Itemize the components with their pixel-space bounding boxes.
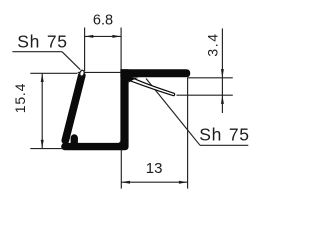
svg-text:15.4: 15.4	[12, 83, 28, 113]
svg-text:3.4: 3.4	[205, 32, 221, 56]
svg-text:Sh 75: Sh 75	[199, 124, 249, 144]
svg-text:13: 13	[146, 160, 163, 177]
svg-text:Sh 75: Sh 75	[17, 32, 67, 52]
svg-text:6.8: 6.8	[93, 12, 113, 28]
